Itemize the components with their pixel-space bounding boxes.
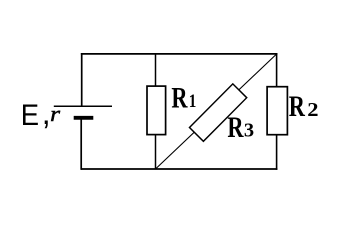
svg-text:E: E (21, 99, 39, 132)
label R1 (171, 80, 196, 114)
battery E,r long thin plate (54, 105, 112, 107)
svg-text:1: 1 (189, 90, 197, 111)
resistor R2 (267, 87, 287, 135)
svg-text:R: R (289, 89, 306, 123)
svg-text:3: 3 (244, 120, 254, 142)
label R2 (289, 89, 319, 123)
wire middle branch (R1 branch) (155, 54, 157, 169)
label R3 (227, 110, 254, 144)
wire bottom (81, 168, 278, 170)
svg-text:R: R (171, 80, 188, 114)
wire right (R2 branch) (276, 53, 278, 170)
wire diagonal (R3 branch) (156, 54, 277, 169)
wire left lower segment (negative terminal lead) (80, 118, 82, 170)
resistor R3 (diagonal) (189, 84, 246, 141)
svg-text:2: 2 (307, 98, 318, 121)
svg-text:R: R (227, 110, 244, 144)
wire top (81, 53, 278, 55)
resistor R1 (147, 86, 166, 135)
wire left upper segment (positive terminal lead) (81, 53, 83, 106)
battery E,r short thick plate (74, 116, 94, 120)
svg-text:r: r (50, 103, 61, 127)
